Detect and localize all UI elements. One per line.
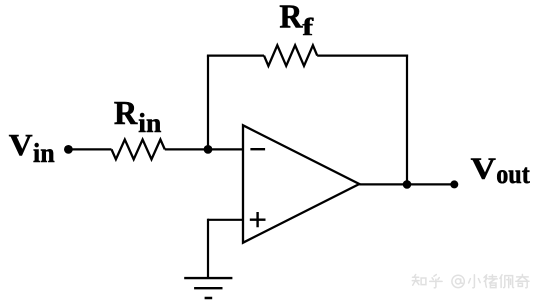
resistor R_f zigzag — [264, 45, 317, 66]
glyph 知 — [412, 275, 426, 286]
glyph 奇 — [516, 274, 529, 287]
ground — [184, 278, 232, 298]
wire: non-inverting input vertical to ground — [207, 219, 209, 278]
glyph 佩 — [500, 275, 514, 288]
glyph 猪 — [484, 275, 497, 288]
node dot: Vin terminal — [64, 145, 73, 154]
svg-text:in: in — [33, 137, 55, 168]
svg-text:out: out — [496, 158, 530, 189]
wire: Vin terminal to Rin — [68, 148, 111, 150]
svg-text:f: f — [302, 15, 314, 41]
node dot: inverting input junction — [204, 145, 213, 154]
op-amp minus sign — [250, 148, 265, 150]
svg-text:V: V — [9, 127, 33, 162]
op-amp plus sign — [250, 212, 266, 227]
svg-text:in: in — [138, 107, 161, 138]
wire: feedback right vertical — [406, 55, 408, 185]
resistor R_in zigzag — [112, 140, 165, 160]
svg-text:R: R — [114, 95, 138, 132]
wire: feedback left vertical — [207, 56, 209, 150]
glyph @ — [452, 275, 464, 287]
wire: output — [359, 183, 454, 185]
watermark 知乎 @小猪佩奇 — [412, 274, 529, 287]
wire: Rin to op-amp inverting input — [165, 148, 243, 150]
glyph 乎 — [430, 275, 442, 288]
wire: feedback top left — [207, 54, 264, 56]
op-amp U1 triangle — [243, 125, 359, 242]
node dot: output junction — [403, 180, 412, 189]
svg-text:V: V — [471, 151, 497, 186]
node dot: Vout terminal — [450, 180, 458, 188]
svg-text:R: R — [279, 0, 303, 36]
wire: non-inverting input horizontal — [208, 219, 243, 221]
glyph 小 — [469, 275, 481, 288]
wire: feedback top right — [317, 54, 408, 56]
